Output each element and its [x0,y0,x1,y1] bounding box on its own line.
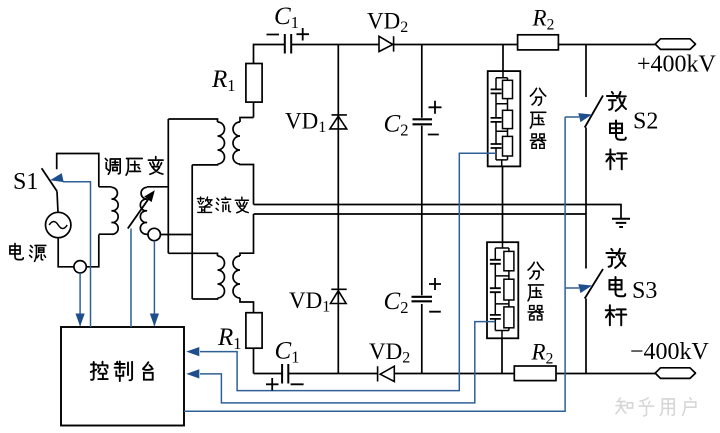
capacitor C1 (top) [285,34,291,54]
wire VD1 branch (vertical) [337,45,339,374]
voltage divider box (bottom) [487,242,518,338]
switch S2 blade [585,96,603,128]
terminal bushing -400kV [655,368,695,379]
resistor R1 (bottom) [246,313,262,374]
wire control: top divider tap [200,153,496,390]
ground [612,219,630,227]
svg-text:S1: S1 [13,169,38,195]
wire C1 to VD2 node [292,44,379,46]
label 电源 (power source) [10,244,46,262]
polarity signs C2 bottom [429,278,441,312]
switch S1 blade [42,168,57,191]
wire C1 to VD2 (bottom) [289,373,378,375]
terminal bushing +400kV [655,39,695,50]
wire control: source terminal sense [79,273,81,326]
diode VD1 (top) [330,115,347,129]
wire primary return bus [191,165,193,299]
wire mid rail lower [254,213,587,215]
polarity signs C2 top [428,101,442,135]
arrow into console (top divider signal) [186,347,199,356]
terminal node circle (transformer) [148,228,160,240]
wire control: bottom divider tap [200,322,495,403]
wire secondary bottom to mid rail [240,164,254,205]
winding: regulating transformer primary [99,187,118,234]
wire divider branch (top) [502,45,504,72]
label 放电杆 (discharge rod, top) [606,92,627,169]
winding: rectifier transformer lower secondary [233,256,240,298]
wire control: regulator tap command [130,229,132,328]
wire VD2 to R2 (bottom) [395,373,515,375]
arrow at S3 blade [578,281,593,293]
diode VD2 (bottom) [378,366,395,381]
terminal node circle (source) [74,261,86,273]
control console box [61,327,184,426]
polarity signs C1 top [267,28,310,41]
wire R2 to terminal (bottom) [556,373,656,375]
wire source bottom [58,235,99,267]
polarity signs C1 bottom [266,378,304,391]
diode VD1 (bottom) [331,289,347,303]
wire C2 branch (vertical) [421,45,423,374]
svg-text:S2: S2 [633,109,658,135]
label 调压变 (regulating transformer) [105,157,163,176]
variable tap arrow [128,190,155,228]
label 分压器 (voltage divider, bottom) [528,262,543,320]
wire VD2 to R2 (top) [394,44,518,46]
resistor R1 (top) [246,64,262,118]
divider internals (bottom): RC ladder [490,242,514,338]
diode VD2 (top) [379,36,394,51]
wire discharge rod branch S2 upper [585,45,587,98]
wire bottom bus left [254,373,282,375]
voltage divider box (top) [488,71,521,166]
label 分压器 (voltage divider, top) [530,88,545,148]
wire source loop top [57,154,99,187]
label 整流变 (rectifier transformer) [197,197,248,213]
resistor R2 (bottom) [514,366,556,381]
wire R2 to terminal [558,44,656,46]
watermark 知乎用户 [616,398,696,416]
capacitor C2 (top) [413,119,433,124]
svg-text:+400kV: +400kV [637,52,717,78]
wire divider (top) to mid rail and lower divider [502,166,504,242]
wire upper primary bottom lead [192,163,217,166]
wire divider (bottom) to bottom bus [501,338,503,373]
resistor R2 (top) [518,35,559,50]
wire S3 lower segment [585,299,587,374]
winding: regulating transformer secondary [140,187,192,235]
arrow into console (source sense) [76,314,85,327]
winding: rectifier transformer upper primary [218,122,225,164]
wire lower primary bottom lead [192,298,217,299]
wire R1 to transformer secondary (top) [240,118,254,123]
wire lower secondary to R1 (bottom) [240,298,254,313]
wire mid rail upper (grounded) [254,205,622,219]
arrow into console (bottom divider signal) [186,369,199,378]
winding: rectifier transformer upper secondary [233,122,240,164]
wire control: transformer terminal sense [153,241,155,326]
winding: rectifier transformer lower primary [218,256,225,298]
wire control: S1 command [63,182,91,327]
wire primary feed bus left [167,119,169,253]
wire S2/S3 middle segment [585,128,587,269]
arrow at S2 blade [578,110,593,122]
label 控制台 (control console) [91,362,153,382]
wire top output bus [254,45,285,64]
wire mid rail to lower secondary [240,214,254,256]
wire S1 to AC source [57,191,58,212]
label 放电杆 (discharge rod, bottom) [606,249,627,325]
svg-text:S3: S3 [632,278,657,304]
wire control: discharge rod command [184,117,579,411]
arrow at S1 blade [49,173,64,185]
switch S3 blade [585,269,603,299]
wire lower primary top lead [168,253,217,256]
AC source [46,212,71,237]
capacitor C1 (bottom) [282,364,288,384]
arrow into console (transformer sense) [150,314,159,327]
wire upper primary top lead [168,119,217,122]
capacitor C2 (bottom) [412,297,433,302]
divider internals (top): RC ladder [491,71,513,166]
svg-text:−400kV: −400kV [630,339,710,365]
